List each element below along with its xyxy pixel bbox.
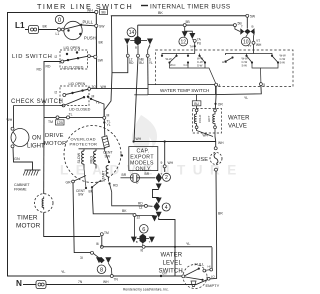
connector diamond at circled 2 [156,173,163,183]
svg-text:YL: YL [244,96,248,100]
svg-text:LO: LO [211,274,216,278]
wire: N neutral line [23,279,208,284]
svg-text:I6: I6 [141,248,144,252]
svg-text:B: B [252,25,254,29]
circled 6 [140,225,149,234]
svg-text:REG: REG [89,156,93,164]
svg-text:9: 9 [161,161,163,165]
svg-text:BK: BK [158,11,163,15]
connector arrows at circled 8 [96,257,102,263]
svg-text:LID OPEN: LID OPEN [64,46,81,50]
water valve (dashed box with two solenoids) [193,109,222,138]
svg-text:I2: I2 [55,55,58,59]
svg-text:32: 32 [137,216,141,220]
svg-text:YL: YL [186,242,190,246]
svg-text:8: 8 [100,267,103,273]
timer line switch: circled 0 [55,15,63,23]
svg-text:MOTOR: MOTOR [44,141,66,147]
motor internal bus [79,148,105,149]
svg-text:PROTECTOR: PROTECTOR [70,142,98,147]
svg-text:S-W: S-W [242,63,248,67]
svg-text:WH: WH [136,137,142,141]
temp switch right contact group [222,53,286,83]
svg-text:WH: WH [203,133,209,137]
svg-text:14: 14 [129,30,135,36]
start winding [101,166,108,183]
terminal 7N on bottom wire [110,275,113,278]
wire: WH collector (valve/fuse/motor) [134,141,216,143]
circled 2 [163,173,171,181]
wire: label box stub [134,94,148,96]
svg-text:START: START [101,170,105,182]
terminal L1 at switch [57,28,60,31]
svg-text:SW: SW [78,193,84,197]
main lower bus [102,246,212,248]
svg-text:PU: PU [197,41,202,45]
svg-text:SLOW: SLOW [77,152,81,163]
slow winding [77,149,84,169]
motor lower contacts [66,169,119,197]
svg-text:3I: 3I [80,256,83,260]
svg-text:12B: 12B [57,121,64,125]
svg-text:6: 6 [142,227,145,233]
connector diamonds at 6 [131,237,137,243]
svg-text:T: T [149,240,151,244]
terminal SW (pull contact) [95,24,98,27]
ground (cabinet frame) [13,148,41,192]
svg-text:S-W: S-W [280,60,286,64]
svg-text:B: B [135,46,137,50]
svg-text:SWITCH: SWITCH [159,269,183,275]
wire: YL to water level switch HI [211,247,213,269]
svg-text:W-W: W-W [166,57,173,61]
svg-text:TM: TM [48,120,53,124]
wire: BU column down [134,57,138,141]
svg-text:RD: RD [129,61,134,65]
svg-text:9B: 9B [101,11,106,15]
svg-text:N: N [16,279,22,288]
svg-text:MOTOR: MOTOR [16,223,41,230]
svg-text:INTERNAL TIMER BUSS: INTERNAL TIMER BUSS [150,4,231,11]
svg-text:FRAME: FRAME [14,188,27,192]
circled 4 [162,203,170,211]
timer line switch body [61,19,95,40]
svg-text:TIMER LINE SWITCH: TIMER LINE SWITCH [37,2,133,11]
circled 8 [97,265,106,274]
reg winding [89,149,96,169]
svg-text:M: M [92,94,95,98]
temp switch left contact group [161,51,216,85]
svg-text:5W: 5W [250,14,256,18]
svg-text:I6: I6 [96,242,99,246]
svg-text:BR: BR [145,172,150,176]
wire: internal timer buss (lower 5B) [138,24,234,26]
wire: BU stub to valve [196,95,198,110]
terminal NB/BU [137,45,139,54]
overload protector [70,136,110,148]
timer motor TM [16,117,100,236]
svg-text:T: T [241,25,243,29]
svg-text:LID CLOSED: LID CLOSED [69,108,91,112]
svg-text:WH: WH [87,9,93,13]
wire: 32 down to connector at 6 [134,217,136,240]
svg-text:L1: L1 [56,32,60,36]
svg-text:WH: WH [218,141,224,145]
svg-text:COLD: COLD [198,114,202,123]
svg-text:7N: 7N [78,280,83,284]
svg-text:WATER TEMP SWITCH: WATER TEMP SWITCH [160,88,209,93]
svg-text:WH: WH [103,280,109,284]
svg-text:PUSH: PUSH [84,36,96,41]
wire: neutral loop (top WH run, left frame, bottom YL/GY run) [8,13,183,277]
svg-text:BU: BU [194,102,199,106]
svg-text:4: 4 [165,205,168,211]
terminal 5B (right) [233,24,236,27]
terminal 5 [259,83,262,86]
svg-text:T: T [161,172,163,176]
connector plug (neutral) [36,281,46,289]
terminal 4 [215,83,218,86]
arrow below 4 [156,212,162,218]
svg-text:WATER: WATER [161,253,183,259]
svg-text:M: M [107,114,110,118]
fuse F1 [193,147,223,171]
svg-text:Rendered by LeadVenture, Inc.: Rendered by LeadVenture, Inc. [123,288,169,292]
svg-text:WATER: WATER [228,116,250,122]
svg-text:12: 12 [181,39,187,45]
centrifugal switch (upper) [103,149,123,163]
drive motor body (dashed circle) [64,126,121,183]
lid switch 1 (upper) [55,46,94,70]
zigzag 2 to 4 [156,184,162,190]
svg-text:WH: WH [7,118,13,122]
svg-text:YT: YT [248,44,252,48]
lid switch 2 (lower) [55,82,107,112]
on light lamp [7,106,46,150]
svg-text:WH: WH [256,43,262,47]
wire: switch output bus (vertical) [95,12,97,89]
svg-text:RD: RD [138,201,143,205]
svg-text:7A: 7A [190,45,194,49]
svg-text:BK: BK [122,209,127,213]
svg-text:BR: BR [218,212,223,216]
svg-text:GR: GR [66,181,72,185]
terminal TM / timer motor riser [100,231,109,247]
svg-text:TIMER: TIMER [17,215,38,222]
connector assembly circled 14 [127,28,136,37]
junction: GY node on bottom wire [160,275,162,277]
svg-text:YL: YL [149,61,153,65]
wire: I2 to RD riser [44,62,61,118]
svg-text:HI: HI [208,264,211,268]
wire: 3O output to water temp switch [91,88,148,90]
svg-text:7Z: 7Z [139,206,143,210]
terminal 9/WH above 2 [164,141,166,172]
terminal 3/YL [148,45,150,55]
svg-text:YL: YL [107,123,111,127]
svg-text:LID SWITCH: LID SWITCH [12,54,53,60]
wire: L1 lead BK [25,29,57,31]
svg-text:S-W: S-W [197,63,203,67]
svg-text:FULL: FULL [195,261,206,266]
wire: timer motor feed row [14,105,64,107]
svg-text:BU: BU [139,61,144,65]
connector assembly circled 10 [246,17,248,28]
svg-text:SW: SW [98,59,104,63]
svg-text:RD: RD [46,65,51,69]
svg-text:7N: 7N [114,278,119,282]
svg-text:B: B [136,240,138,244]
svg-text:W-C: W-C [170,63,176,67]
connector assembly circled 12 [185,27,193,33]
svg-text:Y: Y [181,270,183,274]
wire: YL column down to temp switch [147,57,149,84]
wire: check switch to M node [92,99,104,116]
check switch blade [62,96,85,107]
svg-text:LID OPEN: LID OPEN [69,82,86,86]
motor lead M/YL [103,119,106,136]
svg-text:LID CLOSED: LID CLOSED [62,66,84,70]
terminal WH/9B at top [95,10,98,13]
wire: buss riser to L2 column [112,16,128,73]
svg-text:FUSE: FUSE [193,157,209,163]
svg-text:BR: BR [122,173,127,177]
svg-text:L1: L1 [15,21,25,30]
svg-text:BK: BK [99,41,104,45]
svg-text:TL: TL [69,113,73,117]
cap export models only box [129,147,158,173]
svg-text:VALVE: VALVE [228,124,247,130]
svg-text:DRIVE: DRIVE [45,133,64,139]
svg-text:YL: YL [61,270,65,274]
svg-text:OR: OR [218,102,224,106]
wire: internal timer buss BK (upper) [111,15,247,17]
connector plug (L1) [29,26,39,34]
svg-text:GN: GN [14,157,20,161]
svg-text:RD: RD [113,184,118,188]
capacitor C1 [121,172,156,185]
svg-text:HOT: HOT [207,116,211,123]
water temp switch label box [148,85,216,95]
svg-text:SW: SW [99,25,105,29]
terminal SW (lid switch blade) [94,55,97,58]
connector diamond at circled 4 [154,202,161,211]
title: INTERNAL TIMER BUSS [141,4,231,11]
wire: terminals 4/5 to valve [216,86,261,95]
svg-text:PULL: PULL [83,19,94,24]
terminal 5B (left) [183,24,186,27]
water level switch body [181,261,220,288]
terminal M [103,116,106,119]
svg-text:WH: WH [168,161,174,165]
wire: RD to terminal 7Z [110,184,145,206]
svg-text:EMPTY: EMPTY [206,283,220,288]
wire: BR from fuse down [211,171,217,279]
wire: GR to terminal 31 [73,183,91,253]
wire: cent sw BK to terminal 32 [92,187,133,214]
svg-text:LEVEL: LEVEL [163,261,183,267]
svg-text:TM: TM [104,231,109,235]
terminal L2/RD [126,45,129,55]
svg-text:CABINET: CABINET [14,183,30,187]
svg-text:ON: ON [32,136,41,142]
svg-text:5: 5 [263,83,265,87]
svg-text:LIGHT: LIGHT [27,144,45,150]
svg-text:CHECK SWITCH: CHECK SWITCH [11,99,63,105]
svg-text:4: 4 [219,83,221,87]
svg-text:RD: RD [37,68,42,72]
connector label 12B [56,120,65,125]
svg-text:BK: BK [43,25,48,29]
watermark (decorative) [60,115,244,178]
svg-text:2: 2 [165,175,168,181]
svg-text:I2: I2 [55,91,58,95]
water temp switch (dashed box) [156,50,294,87]
terminal 5W [246,14,249,17]
svg-text:5B: 5B [186,20,191,24]
